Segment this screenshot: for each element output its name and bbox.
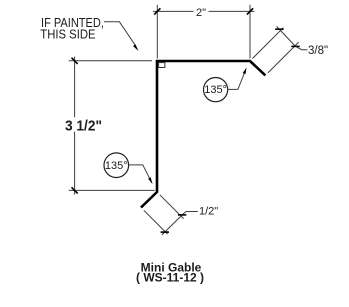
dimension 3-1/2-inch: dimension line lower part — [74, 132, 76, 195]
svg-text:2": 2" — [196, 7, 206, 19]
dimension 2-inch: left extension line — [156, 5, 158, 59]
note: if-painted leader line — [104, 22, 135, 46]
svg-text:THIS SIDE: THIS SIDE — [40, 27, 95, 42]
note: if-painted arrowhead — [133, 44, 138, 51]
angle callout bottom: arrowhead — [148, 177, 153, 184]
dimension 3-1/2-inch: dimension line upper part — [74, 57, 76, 118]
dimension 3/8-inch: extension line from top bend — [253, 28, 284, 59]
svg-text:3/8": 3/8" — [308, 45, 328, 57]
dimension 3/8-inch: extension line from flange end — [268, 42, 299, 73]
angle callout bottom: 135-degree circle — [104, 153, 129, 178]
svg-text:3 1/2": 3 1/2" — [65, 118, 102, 134]
dimension 1/2-inch: lower tick — [161, 231, 169, 233]
dimension 2-inch: right tick — [247, 8, 253, 14]
angle callout top: leader line — [228, 73, 245, 90]
dimension 3/8-inch: leader to label — [296, 46, 308, 49]
dimension 3-1/2-inch: top tick — [72, 58, 78, 64]
dimension 3/8-inch: lower tick — [291, 45, 299, 47]
angle callout top: 135-degree circle — [204, 78, 228, 102]
dimension 2-inch: dimension line right part — [209, 10, 255, 12]
dimension 1/2-inch: extension line from bottom bend — [160, 195, 184, 219]
dimension 2-inch: left tick — [154, 8, 160, 14]
angle callout bottom: leader line — [129, 165, 150, 179]
dimension 3-1/2-inch: bottom tick — [72, 187, 78, 193]
dimension 3/8-inch: dimension line — [277, 26, 296, 46]
angle callout top: arrowhead — [243, 68, 247, 75]
svg-text:135°: 135° — [105, 160, 128, 172]
dimension 1/2-inch: leader to label — [185, 211, 198, 214]
svg-text:1/2": 1/2" — [199, 205, 218, 217]
dimension 2-inch: dimension line left part — [153, 10, 194, 12]
dimension 3/8-inch: upper tick — [275, 28, 283, 30]
dimension 1/2-inch: dimension line — [162, 212, 185, 235]
profile: mini gable flashing outline — [141, 61, 265, 208]
svg-text:135°: 135° — [204, 84, 227, 96]
corner square paint-side marker — [159, 63, 165, 68]
dimension 1/2-inch: upper tick — [178, 214, 186, 216]
dimension 3-1/2-inch: bottom extension line — [69, 189, 155, 191]
dimension 1/2-inch: extension line from flange end — [144, 210, 168, 234]
svg-text:( WS-11-12 ): ( WS-11-12 ) — [136, 271, 204, 285]
dimension 2-inch: right extension line — [249, 5, 251, 59]
dimension 3-1/2-inch: top extension line — [69, 60, 152, 62]
